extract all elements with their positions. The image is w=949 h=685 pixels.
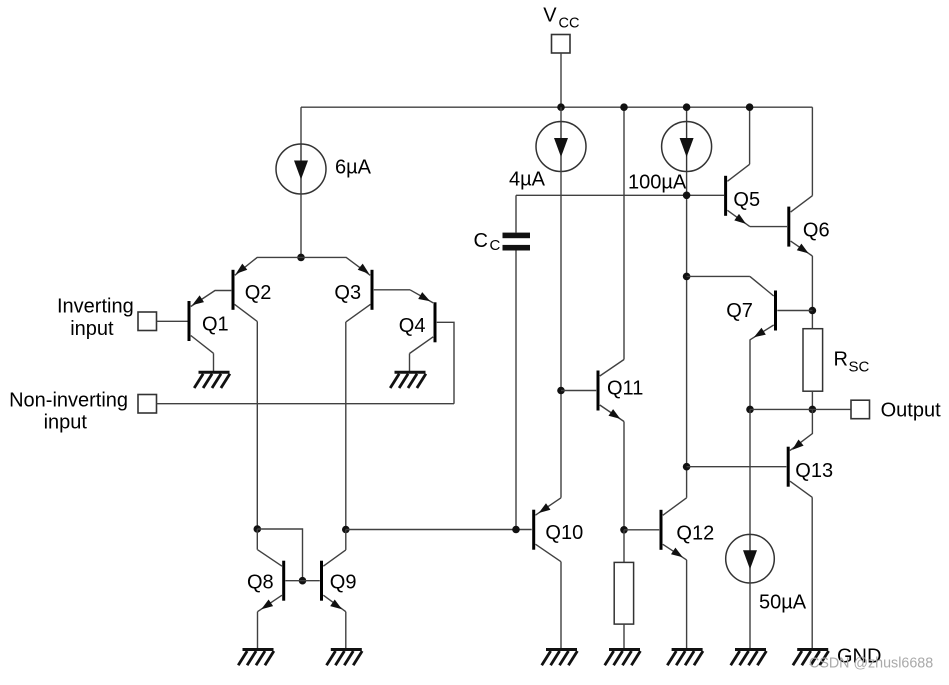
svg-text:V: V — [543, 5, 557, 27]
transistor Q2 — [233, 270, 257, 322]
ground Q9 emitter — [327, 650, 363, 666]
wire Q12 collector up to 100uA node — [686, 169, 688, 498]
wire Cc bottom to Q10 base — [515, 251, 517, 530]
label Q10 — [545, 522, 583, 544]
wire Q11 base — [561, 390, 596, 392]
transistor Q3 — [346, 270, 372, 322]
label CC — [474, 230, 501, 254]
node Q7 base junction — [809, 307, 817, 315]
svg-text:Inverting: Inverting — [57, 296, 134, 318]
svg-text:Q2: Q2 — [245, 282, 272, 304]
wire Q10 collector to ground — [560, 562, 562, 649]
wire Q7 collector to 100uA node — [687, 275, 750, 277]
wire Q12 base — [624, 529, 659, 531]
resistor R1 — [614, 562, 633, 624]
wire 4uA source down to Q10 emitter — [560, 171, 562, 498]
wire tail node to Q3 emitter — [301, 257, 370, 275]
node Q12 base junction — [620, 526, 628, 534]
ground Q13 collector GND — [793, 650, 829, 666]
label Q12 — [676, 523, 714, 545]
transistor Q1 — [189, 291, 231, 354]
wire Q7 base — [777, 310, 812, 312]
wire inverting input to Q1 base — [157, 320, 188, 322]
svg-text:6µA: 6µA — [335, 157, 372, 179]
wire Q8 Q9 base link — [285, 580, 320, 582]
svg-text:4µA: 4µA — [509, 168, 546, 190]
svg-text:Q11: Q11 — [607, 377, 643, 399]
svg-text:Q5: Q5 — [733, 189, 760, 211]
wire Q11 collector to rail — [623, 107, 625, 359]
label Inverting input — [57, 296, 134, 340]
label 6uA — [335, 157, 372, 179]
node Rsc output junction — [809, 406, 817, 414]
transistor Q13 — [788, 447, 812, 498]
transistor Q7 — [750, 276, 776, 339]
wire rail to 4uA source — [560, 107, 562, 122]
label Q2 — [245, 282, 272, 304]
capacitor CC — [503, 233, 531, 251]
wire Q4 base to non-inverting input — [437, 322, 454, 403]
wire Q4 collector to ground — [409, 354, 411, 372]
current source 100uA — [662, 122, 712, 172]
node 100uA output junction — [683, 192, 691, 200]
ground 50uA — [731, 650, 767, 666]
svg-text:Q12: Q12 — [676, 523, 714, 545]
wire output line — [750, 408, 851, 410]
wire Q8 emitter to ground — [257, 612, 259, 649]
svg-text:Output: Output — [881, 400, 941, 422]
wire non-inverting input line — [157, 403, 455, 405]
node Cc Q10 base junction — [512, 526, 520, 534]
ground Q10 collector — [542, 650, 578, 666]
wire 50uA source to ground — [749, 583, 751, 650]
wire Rsc to output node — [811, 391, 813, 409]
wire Vcc terminal to rail — [560, 53, 562, 107]
label Q4 — [399, 315, 426, 337]
svg-text:input: input — [70, 318, 114, 340]
terminal output square — [851, 400, 870, 419]
svg-text:Q4: Q4 — [399, 315, 426, 337]
wire Q1 collector to ground — [213, 353, 215, 371]
terminal inverting input square — [138, 312, 157, 331]
wire top Vcc rail — [301, 106, 812, 108]
wire Q13 base to 100uA node — [687, 466, 787, 468]
label 50uA — [759, 591, 807, 613]
watermark CSDN — [809, 656, 933, 672]
svg-text:Q3: Q3 — [334, 282, 361, 304]
svg-text:input: input — [44, 411, 88, 433]
wire rail to 100uA source — [686, 107, 688, 122]
wire Q13 collector to ground — [811, 497, 813, 649]
transistor Q5 — [726, 164, 750, 226]
node Q8 Q9 base junction — [299, 577, 307, 585]
node Q11 collector rail junction — [620, 103, 628, 111]
svg-text:Q13: Q13 — [795, 460, 833, 482]
svg-text:Non-inverting: Non-inverting — [9, 390, 128, 412]
label Q1 — [202, 314, 229, 336]
wire junction to Q8 collector — [256, 529, 258, 550]
transistor Q12 — [661, 498, 687, 560]
node Q8 collector junction — [253, 525, 261, 533]
node Vcc-rail junction — [557, 103, 565, 111]
ground Q8 emitter — [238, 650, 274, 666]
current source 6uA — [276, 144, 326, 194]
svg-text:CC: CC — [559, 15, 580, 31]
wire 6uA source to input pair node — [300, 194, 302, 258]
wire Q2 collector to Q8 — [256, 322, 258, 530]
ground Q1 collector — [194, 372, 230, 388]
wire resistor to ground — [623, 624, 625, 649]
svg-text:C: C — [474, 230, 488, 252]
svg-text:50µA: 50µA — [759, 591, 807, 613]
label Q7 — [726, 300, 753, 322]
node Q11 base junction — [557, 387, 565, 395]
svg-text:Q8: Q8 — [247, 572, 274, 594]
node Q7 emitter output junction — [746, 406, 754, 414]
wire Q9 emitter to ground — [345, 612, 347, 649]
label 4uA — [509, 168, 546, 190]
wire Q9 collector junction to Q10 base — [346, 529, 532, 531]
wire Cc to Q5 base — [516, 194, 724, 196]
label Q11 — [607, 377, 643, 399]
wire Q12 emitter to ground — [686, 560, 688, 649]
wire Q12 base node to resistor — [623, 530, 625, 563]
svg-text:100µA: 100µA — [628, 172, 687, 194]
wire output node to 50uA source — [749, 409, 751, 535]
svg-text:CSDN @zhusl6688: CSDN @zhusl6688 — [809, 656, 933, 672]
wire output node to Q13 emitter — [790, 409, 813, 450]
svg-text:R: R — [834, 349, 848, 371]
transistor Q4 — [410, 290, 436, 354]
resistor RSC — [803, 329, 823, 392]
wire Q7 emitter down to output node — [749, 340, 751, 410]
svg-text:C: C — [490, 237, 501, 254]
svg-text:Q9: Q9 — [330, 572, 357, 594]
label Non-inverting input — [9, 390, 128, 434]
label Q6 — [803, 219, 830, 241]
ground Q12 emitter — [667, 650, 703, 666]
label Q5 — [733, 189, 760, 211]
wire Q3 base to Q4 emitter — [374, 289, 410, 291]
svg-text:Q1: Q1 — [202, 314, 229, 336]
svg-text:Q7: Q7 — [726, 300, 753, 322]
transistor Q10 — [534, 498, 561, 562]
current source 50uA — [726, 534, 775, 583]
node 100uA rail junction — [683, 103, 691, 111]
wire Q3 collector to Q9 — [345, 322, 347, 530]
ground resistor — [605, 650, 641, 666]
node input pair tail — [297, 254, 305, 262]
label Q13 — [795, 460, 833, 482]
terminal VCC square — [552, 35, 571, 54]
ground Q4 collector — [390, 372, 426, 388]
wire Q6 emitter down to Rsc — [811, 256, 813, 329]
svg-text:SC: SC — [849, 359, 870, 376]
wire Q5 emitter to Q6 base — [750, 226, 787, 228]
transistor Q8 — [258, 550, 284, 612]
transistor Q9 — [322, 550, 346, 612]
label GND — [837, 645, 881, 667]
current source 4uA — [536, 122, 586, 172]
wire rail to 6uA source — [300, 107, 302, 145]
wire Q9 collector stub — [345, 530, 347, 550]
wire Q5 collector to rail — [749, 107, 751, 164]
node Q13 base junction — [683, 463, 691, 471]
label Q8 — [247, 572, 274, 594]
node Q5 collector rail junction — [746, 103, 754, 111]
svg-text:Q6: Q6 — [803, 219, 830, 241]
node Q9 collector junction — [342, 526, 350, 534]
label Output — [881, 400, 941, 422]
wire Q6 collector to rail corner — [811, 107, 813, 196]
label 100uA — [628, 172, 687, 194]
label Q3 — [334, 282, 361, 304]
node Q7 collector junction — [683, 273, 691, 281]
wire tail node to Q2 emitter — [235, 257, 301, 275]
transistor Q11 — [598, 360, 624, 422]
terminal non-inverting input square — [138, 395, 157, 414]
wire Q11 emitter to Q12 base node — [623, 422, 625, 530]
svg-text:Q10: Q10 — [545, 522, 583, 544]
wire Cc top connection — [515, 195, 517, 232]
label RSC — [834, 349, 870, 376]
label Q9 — [330, 572, 357, 594]
wire Q8 collector-base tie — [257, 529, 302, 581]
label VCC — [543, 5, 579, 32]
transistor Q6 — [789, 196, 813, 256]
